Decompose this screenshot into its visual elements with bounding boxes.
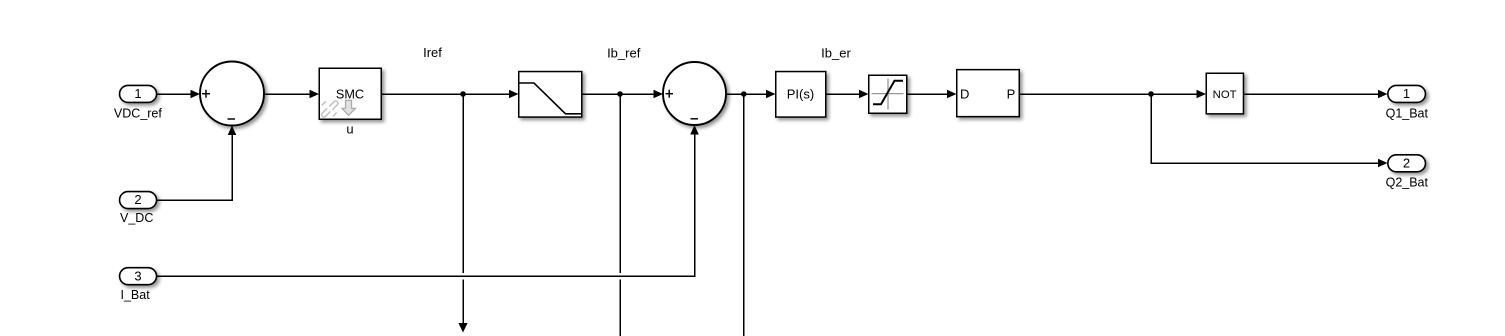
svg-text:PI(s): PI(s) (787, 86, 814, 101)
svg-text:VDC_ref: VDC_ref (114, 107, 162, 121)
svg-text:Ib_ref: Ib_ref (607, 45, 641, 60)
svg-text:V_DC: V_DC (120, 211, 153, 225)
svg-text:Iref: Iref (423, 45, 442, 60)
svg-text:2: 2 (134, 192, 141, 207)
svg-text:3: 3 (134, 268, 141, 283)
svg-text:u: u (346, 122, 353, 137)
svg-text:Ib_er: Ib_er (821, 45, 851, 60)
svg-text:2: 2 (1403, 155, 1410, 170)
svg-text:Q2_Bat: Q2_Bat (1386, 175, 1429, 189)
svg-text:1: 1 (1403, 86, 1410, 101)
svg-text:Q1_Bat: Q1_Bat (1386, 106, 1429, 120)
svg-text:SMC: SMC (336, 87, 364, 101)
svg-text:NOT: NOT (1213, 89, 1237, 101)
svg-text:D: D (960, 87, 969, 102)
svg-text:P: P (1007, 87, 1016, 102)
svg-text:1: 1 (134, 86, 141, 101)
svg-text:I_Bat: I_Bat (121, 288, 151, 302)
